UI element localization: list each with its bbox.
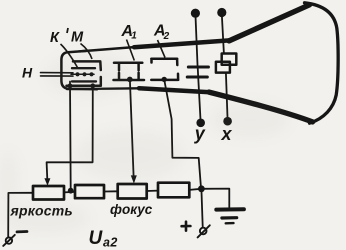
junction dot A1 lead	[127, 77, 133, 83]
heater filament beads	[75, 72, 93, 76]
svg-text:а2: а2	[103, 236, 118, 250]
terminal dot top x	[217, 8, 226, 17]
terminal dot bottom x	[223, 117, 232, 126]
wire R2 to R3	[104, 190, 118, 192]
wire y plates top lead	[196, 16, 198, 67]
tube envelope neck top thick	[134, 40, 231, 47]
svg-text:U: U	[89, 228, 104, 249]
heater filament line	[71, 73, 94, 75]
minus sign	[17, 230, 27, 233]
junction dot plus node	[198, 185, 205, 192]
wire x plates top lead	[222, 16, 224, 54]
tube screen face arc	[305, 3, 339, 123]
wire cathode to divider tap	[69, 82, 72, 191]
arrowhead focus wiper	[131, 175, 137, 183]
resistor R3 focus	[118, 184, 147, 199]
wire x plates bottom lead	[226, 73, 228, 118]
arrowhead brightness wiper	[44, 178, 50, 186]
terminal minus (circle with slash)	[6, 237, 12, 243]
label A2 leader	[158, 40, 166, 58]
svg-text:у: у	[194, 124, 206, 144]
label M leader	[81, 44, 93, 60]
apostrophe mark	[67, 28, 68, 33]
wire plus node to terminal	[201, 189, 202, 227]
plus sign	[182, 222, 191, 231]
deflection plates x (squares)	[222, 54, 237, 65]
tube envelope neck top thin	[80, 47, 137, 52]
heater H lead wires	[41, 73, 74, 77]
wire R4 to plus junction	[189, 189, 201, 190]
resistor R4	[158, 183, 189, 198]
svg-text:К: К	[50, 30, 60, 46]
wire left end of divider	[8, 193, 33, 237]
background shading	[0, 53, 290, 234]
wire R1 to R2	[64, 191, 75, 194]
wire modulator to brightness wiper	[47, 86, 93, 180]
anode A2 electrode	[151, 59, 178, 80]
wire R3 to R4	[147, 190, 158, 192]
svg-text:М: М	[71, 30, 84, 46]
anode A1 electrode	[114, 63, 145, 80]
junction dot A2 lead	[162, 77, 167, 82]
svg-text:2: 2	[163, 31, 170, 42]
wire plus node to ground	[201, 189, 229, 208]
terminal plus (circle with slash)	[200, 228, 207, 235]
resistor R1 brightness	[33, 186, 64, 200]
junction dot modulator lead	[90, 83, 95, 88]
junction dot cathode lead	[68, 83, 73, 88]
cathode K cylinder	[72, 68, 96, 81]
tube envelope neck bottom thin	[67, 87, 140, 90]
label K leader	[61, 44, 78, 68]
wire y plates bottom lead	[198, 67, 201, 120]
tube envelope funnel bottom flare	[209, 92, 313, 122]
resistor R2	[75, 185, 104, 198]
label A1 leader	[127, 40, 135, 61]
wire A2 to divider plus end	[164, 80, 201, 187]
junction dot cathode tap	[68, 188, 74, 194]
svg-text:фокус: фокус	[110, 202, 153, 217]
wire A1 to focus wiper	[130, 80, 134, 176]
terminal dot bottom y	[196, 119, 205, 128]
svg-text:1: 1	[131, 31, 137, 42]
svg-text:Н: Н	[22, 65, 33, 81]
deflection plates y	[187, 67, 208, 77]
tube envelope funnel top flare	[229, 5, 310, 41]
tube envelope left cap	[61, 51, 97, 89]
ground symbol	[216, 207, 244, 211]
tube envelope neck bottom thick	[139, 88, 210, 92]
modulator M cylinder	[67, 61, 101, 85]
terminal dot top y	[191, 9, 200, 18]
